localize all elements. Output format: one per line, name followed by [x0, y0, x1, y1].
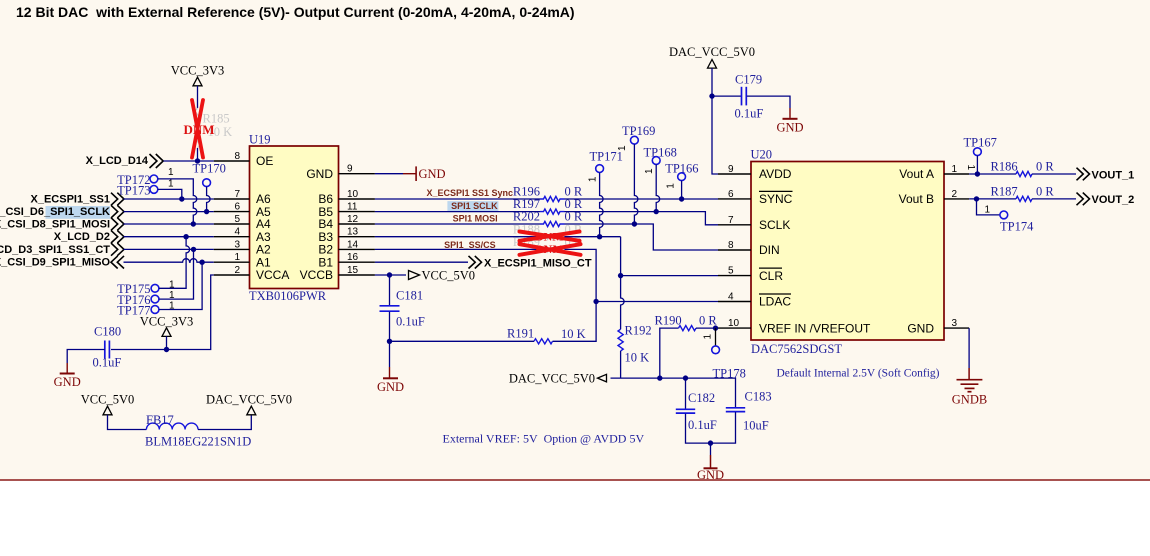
resistor R186 0 R: [1016, 171, 1032, 176]
svg-text:9: 9: [347, 164, 353, 175]
test point TP166 pad: [678, 173, 686, 181]
resistor R196 0 R: [540, 196, 565, 201]
svg-text:SCLK: SCLK: [759, 218, 790, 232]
U20 pin numbers right: [952, 164, 958, 329]
capacitor C180 0.1uF: [105, 341, 110, 359]
wire R191 left to C181/GND junction: [390, 340, 535, 342]
wire LDAC branch down to R191: [553, 302, 597, 342]
svg-text:Vout A: Vout A: [899, 167, 934, 181]
junction TP166: [679, 196, 684, 201]
test point TP174 pad: [1000, 211, 1008, 219]
svg-text:4: 4: [728, 292, 734, 303]
svg-text:0 R: 0 R: [1036, 160, 1054, 174]
junction VCC_3V3 / C180 rail: [164, 347, 169, 352]
op-amp U19 body (level shifter TXB0106PWR): [250, 146, 339, 289]
svg-text:U19: U19: [249, 133, 271, 147]
svg-text:3: 3: [234, 239, 240, 250]
svg-text:X_LCD_D14: X_LCD_D14: [86, 155, 149, 167]
svg-text:TP168: TP168: [644, 145, 677, 159]
wire R186 to VOUT_1 port: [1032, 173, 1076, 175]
wire C182 bottom / C183 bottom to GND: [686, 412, 736, 443]
port chevron SS1_CT: [111, 243, 124, 256]
svg-text:C183: C183: [745, 390, 772, 404]
svg-text:6: 6: [728, 189, 734, 200]
svg-text:5: 5: [234, 214, 240, 225]
wire X_LCD_D14 to U19 pin 8: [164, 160, 214, 162]
test point TP169 pad: [631, 136, 639, 144]
svg-text:1: 1: [985, 205, 991, 216]
wire SPI1_MOSI to U19 pin 5: [124, 223, 214, 225]
svg-text:1: 1: [169, 280, 175, 291]
junction R185 / X_LCD_D14: [195, 158, 200, 163]
svg-text:R191: R191: [507, 327, 534, 341]
wire TP172 to SPI1_MOSI row (hops SS1, SCLK): [158, 179, 197, 224]
svg-text:16: 16: [347, 252, 359, 263]
wire LDAC junction to U20 LDAC pin 4: [596, 301, 718, 303]
svg-text:10 K: 10 K: [625, 351, 650, 365]
wire U19 VCCA pin 2 down to VCC_3V3 rail: [111, 275, 214, 350]
port chevron X_ECSPI1_MISO_CT: [469, 256, 482, 269]
power port GND (U19 pin 9): [403, 166, 446, 181]
svg-text:VREF IN /VREFOUT: VREF IN /VREFOUT: [759, 321, 871, 335]
wire TP177 up to row: [159, 262, 202, 309]
U20 pin stubs left: [718, 174, 751, 328]
U20 pin name overbars (SYNC, CLR, LDAC): [759, 191, 793, 294]
wire C182 top lead: [685, 378, 687, 409]
junction TP167 / Vout A: [975, 171, 980, 176]
wire X_ECSPI1_SS1 to U19 pin 7: [124, 198, 214, 200]
wire U20 GND pin 3 down to GNDB: [968, 328, 970, 368]
resistor R192 10K (pull to DAC_VCC_5V0): [618, 329, 623, 351]
svg-text:6: 6: [234, 202, 240, 213]
svg-text:2: 2: [952, 189, 958, 200]
svg-text:VCC_3V3: VCC_3V3: [171, 64, 224, 78]
svg-text:TP174: TP174: [1000, 220, 1034, 234]
wire TP169 down to row: [634, 144, 638, 224]
wire TP175 up to row: [159, 237, 190, 289]
svg-text:1: 1: [168, 167, 174, 178]
svg-text:11: 11: [347, 202, 358, 213]
svg-text:1: 1: [168, 179, 174, 190]
wire SS1_CT to U19 pin 3: [124, 248, 214, 250]
svg-text:GND: GND: [907, 321, 934, 335]
wire rail up to R190: [660, 328, 679, 378]
test point TP167 pad: [974, 148, 982, 156]
capacitor C182 0.1uF: [676, 409, 695, 413]
U19 pin numbers left: [234, 151, 240, 276]
svg-text:TXB0106PWR: TXB0106PWR: [249, 289, 327, 303]
svg-text:GND: GND: [776, 120, 803, 134]
DNM red X over R185: [192, 100, 203, 158]
resistor R197 0 R: [540, 209, 565, 214]
svg-text:1: 1: [965, 165, 976, 171]
junction TP172 / SPI1_MOSI: [191, 221, 196, 226]
svg-text:VOUT_1: VOUT_1: [1092, 169, 1135, 181]
junction VREF / TP178: [713, 325, 718, 330]
op-amp U20 body (DAC7562SDGST): [751, 162, 944, 341]
port chevron VOUT_2: [1077, 193, 1090, 206]
svg-text:TP167: TP167: [964, 136, 997, 150]
wire TP170 to SCLK row (hops SS1): [207, 187, 211, 212]
svg-text:SYNC: SYNC: [759, 192, 793, 206]
wire R185 to X_LCD_D14 wire: [197, 148, 199, 161]
svg-text:X_ECSPI1_SS1: X_ECSPI1_SS1: [31, 193, 111, 205]
wire Vout B down to TP174: [977, 199, 1000, 215]
test point TP176 pad: [151, 295, 159, 303]
wire VCC_5V0 to FB17: [108, 415, 147, 430]
U19 pin stubs left (pins 8,7,6,5,4,3,1,2): [214, 161, 250, 275]
junction TP175: [183, 234, 188, 239]
svg-text:DAC7562SDGST: DAC7562SDGST: [751, 342, 842, 356]
wire R187 to VOUT_2 port: [1032, 198, 1076, 200]
test point TP170 pad: [203, 179, 211, 187]
capacitor C183 10uF: [726, 408, 745, 412]
svg-text:15: 15: [347, 265, 359, 276]
svg-text:R186: R186: [991, 160, 1018, 174]
svg-text:C182: C182: [688, 391, 715, 405]
wire B2 row (SPI1_SS/CS) down to LDAC: [565, 249, 597, 301]
test point TP173 pad: [150, 186, 158, 194]
svg-text:7: 7: [728, 215, 734, 226]
resistor R190 0 R: [679, 326, 697, 331]
svg-text:C179: C179: [735, 73, 762, 87]
test point TP168 pad: [652, 157, 660, 165]
svg-text:DAC_VCC_5V0: DAC_VCC_5V0: [509, 372, 595, 386]
power symbol VCC_3V3 arrow (lower): [162, 328, 171, 337]
resistor R202 0 R: [540, 221, 565, 226]
junction TP177: [199, 260, 204, 265]
svg-text:12 Bit DAC with External Refe: 12 Bit DAC with External Reference (5V)-…: [16, 4, 575, 20]
svg-text:0.1uF: 0.1uF: [688, 418, 717, 432]
capacitor C179 0.1uF: [742, 87, 747, 106]
svg-text:VOUT_2: VOUT_2: [1092, 194, 1135, 206]
highlight on SPI1_SCLK middle label: [447, 201, 498, 211]
wire junction down to TP178 pad: [715, 328, 717, 346]
resistor R185 10K (DNM, greyed): [195, 108, 200, 148]
svg-text:R192: R192: [625, 324, 652, 338]
wire SCLK row to U20 SCLK pin 7: [565, 212, 719, 225]
port chevron X_ECSPI1_SS1: [111, 193, 124, 206]
svg-text:DAC_VCC_5V0: DAC_VCC_5V0: [669, 45, 755, 59]
svg-text:X_ECSPI1 SS1 Sync: X_ECSPI1 SS1 Sync: [426, 188, 513, 198]
junction TP169: [632, 221, 637, 226]
svg-text:0 R: 0 R: [1036, 185, 1054, 199]
wire C179 right lead to GND: [747, 96, 790, 108]
power symbol VCC_3V3 arrow: [193, 77, 202, 86]
svg-text:C181: C181: [396, 289, 423, 303]
test point TP171 pad: [596, 165, 604, 173]
U19 pin names: [256, 154, 333, 282]
ground GND (C181): [377, 378, 404, 394]
junction C181 / VCCB: [387, 272, 392, 277]
svg-text:14: 14: [347, 239, 359, 250]
wire SPI1_SCLK to U19 pin 6: [124, 211, 214, 213]
svg-text:10: 10: [728, 318, 740, 329]
svg-text:Default Internal 2.5V (Soft Co: Default Internal 2.5V (Soft Config): [777, 368, 940, 380]
svg-text:7: 7: [234, 189, 240, 200]
svg-text:0.1uF: 0.1uF: [735, 107, 764, 121]
wire U19 pin 9 to GND port: [375, 173, 403, 175]
svg-text:1: 1: [588, 176, 599, 182]
svg-text:AVDD: AVDD: [759, 167, 792, 181]
svg-text:GND: GND: [306, 167, 333, 181]
svg-text:12: 12: [347, 214, 359, 225]
wire U19 pin 16 to X_ECSPI1_MISO_CT port: [375, 261, 468, 263]
U20 pin numbers left: [728, 164, 740, 329]
wire MOSI row to U20 DIN pin 8: [565, 224, 719, 250]
wire U19 VCCB pin 15 to VCC_5V0: [375, 274, 406, 276]
svg-text:GND: GND: [419, 167, 446, 181]
wire B3 row to CLR / R192: [565, 236, 621, 238]
junction TP170 / SPI1_SCLK: [204, 209, 209, 214]
wire TP168 down to row: [656, 164, 660, 211]
power symbol DAC_VCC_5V0 arrow (top): [708, 60, 717, 69]
svg-text:TP169: TP169: [622, 124, 655, 138]
junction TP176: [191, 247, 196, 252]
wire U19 to R202: [375, 223, 540, 225]
wire U20 Vout A to R186: [969, 173, 1016, 175]
junction TP168: [654, 209, 659, 214]
svg-text:DIN: DIN: [759, 243, 780, 257]
svg-text:10: 10: [347, 189, 359, 200]
svg-text:External VREF: 5V Option @ AV: External VREF: 5V Option @ AVDD 5V: [443, 432, 645, 446]
port chevron X_LCD_D14: [150, 154, 164, 168]
svg-text:VCCB: VCCB: [300, 268, 333, 282]
wire U20 Vout B to R187: [969, 198, 1016, 200]
svg-text:1: 1: [665, 183, 676, 189]
svg-text:R187: R187: [991, 185, 1018, 199]
svg-text:TP173: TP173: [117, 183, 150, 197]
wire DAC_VCC_5V0 rail: [611, 378, 736, 407]
junction TP171: [597, 234, 602, 239]
ground GND (C180): [54, 374, 81, 390]
power symbol VCC_5V0 arrow (bottom): [103, 406, 112, 415]
ground GNDB (earth symbol): [957, 380, 983, 392]
svg-text:X_ECSPI1_MISO_CT: X_ECSPI1_MISO_CT: [484, 258, 592, 270]
svg-text:X_CSI_D9_SPI1_MISO: X_CSI_D9_SPI1_MISO: [0, 257, 110, 269]
test point TP172 pad: [150, 175, 158, 183]
svg-text:CLR: CLR: [759, 269, 783, 283]
U20 pin stubs right (pins 1,2,3): [944, 174, 969, 328]
svg-text:X_LCD_D3_SPI1_SS1_CT: X_LCD_D3_SPI1_SS1_CT: [0, 244, 110, 256]
svg-text:8: 8: [234, 151, 240, 162]
test point TP178 pad: [712, 346, 720, 354]
U19 pin stubs right (pins 9,10,11,12,13,14,16,15): [339, 174, 375, 275]
svg-text:R190: R190: [655, 314, 682, 328]
svg-text:1: 1: [703, 334, 714, 340]
junction rail / C182: [683, 375, 688, 380]
junction TP173 / X_ECSPI1_SS1: [179, 196, 184, 201]
port chevron VOUT_1: [1077, 168, 1090, 181]
port chevron SPI1_SCLK: [111, 205, 124, 218]
power symbol DAC_VCC_5V0 arrow (bottom): [247, 406, 256, 415]
svg-text:SPI1 SCLK: SPI1 SCLK: [451, 201, 498, 211]
test point TP175 pad: [151, 284, 159, 292]
svg-text:GNDB: GNDB: [952, 393, 987, 407]
svg-text:1: 1: [952, 164, 958, 175]
wire R192 bottom to DAC_VCC_5V0 rail: [620, 351, 622, 378]
svg-text:10 K: 10 K: [561, 327, 586, 341]
wire C181 top: [389, 275, 391, 305]
svg-text:0.1uF: 0.1uF: [93, 356, 122, 370]
junction C179 branch: [709, 93, 714, 98]
svg-text:8: 8: [728, 240, 734, 251]
junction TP174 / Vout B: [974, 196, 979, 201]
ground GND (C182/C183): [697, 468, 724, 482]
resistor R191 10K: [534, 339, 553, 344]
svg-text:0.1uF: 0.1uF: [396, 315, 425, 329]
resistor R189 0 R (DNM, greyed): [540, 247, 565, 252]
svg-text:X_LCD_D2: X_LCD_D2: [54, 231, 110, 243]
port chevron SPI1_MISO (input): [111, 256, 124, 269]
svg-text:2: 2: [234, 265, 240, 276]
svg-text:TP170: TP170: [193, 162, 226, 176]
svg-text:U20: U20: [751, 148, 773, 162]
svg-text:5: 5: [728, 266, 734, 277]
wire U19 to R188: [375, 236, 540, 238]
U19 pin numbers right: [347, 164, 359, 276]
wire C181 bottom to GND: [389, 312, 391, 367]
svg-text:VCC_5V0: VCC_5V0: [422, 269, 475, 283]
svg-text:Vout B: Vout B: [899, 192, 934, 206]
svg-text:GND: GND: [54, 375, 81, 389]
wire SPI1_MISO to U19 pin 1 (hops over TP175/TP176 drops): [124, 259, 214, 263]
power symbol VCC_5V0 arrow (right): [409, 271, 420, 280]
svg-text:SPI1 MOSI: SPI1 MOSI: [453, 214, 498, 224]
ground GND (C179): [776, 119, 803, 135]
svg-text:X_CSI_D8_SPI1_MOSI: X_CSI_D8_SPI1_MOSI: [0, 218, 110, 230]
wire SS1_Sync row to U20 SYNC pin 6: [565, 198, 719, 200]
svg-text:0 R: 0 R: [699, 314, 717, 328]
svg-text:VCCA: VCCA: [256, 268, 289, 282]
junction LDAC / R191 branch: [593, 299, 598, 304]
svg-text:1: 1: [617, 145, 628, 151]
wire U19 to R189: [375, 248, 540, 250]
svg-text:1: 1: [234, 252, 240, 263]
wire TP176 up to row: [159, 249, 194, 299]
port chevron SPI1_MOSI: [111, 218, 124, 231]
U20 pin names: [759, 167, 934, 335]
wire TP171 down to row: [600, 173, 604, 237]
junction C181-GND / R191: [387, 339, 392, 344]
resistor R188 0 R (DNM, greyed): [540, 234, 565, 239]
wire DAC_VCC_5V0 down to U20 AVDD pin 9: [712, 68, 718, 174]
wire FB17 to DAC_VCC_5V0: [198, 415, 251, 430]
junction CLR / R192 branch: [618, 273, 623, 278]
svg-text:DAC_VCC_5V0: DAC_VCC_5V0: [206, 393, 292, 407]
svg-text:3: 3: [952, 318, 958, 329]
svg-text:LDAC: LDAC: [759, 295, 791, 309]
resistor R187 0 R: [1016, 196, 1032, 201]
wire VCC_3V3 arrow stem: [166, 336, 168, 349]
power symbol DAC_VCC_5V0 arrow (left): [598, 374, 607, 382]
wire C180 left to GND: [67, 350, 105, 364]
wire U19 to R197: [375, 211, 540, 213]
svg-text:GND: GND: [377, 380, 404, 394]
svg-text:X_CSI_D6_SPI1_SCLK: X_CSI_D6_SPI1_SCLK: [0, 206, 110, 218]
junction bottom rail / GND: [708, 440, 713, 445]
ferrite bead FB17 BLM18EG221SN1D: [146, 423, 198, 429]
svg-text:FB17: FB17: [146, 413, 174, 427]
wire R190 to U20 VREF pin 10: [696, 327, 718, 329]
wire C179 left lead: [712, 95, 741, 97]
highlight on SPI1_SCLK left label: [46, 206, 111, 219]
junction rail / R190: [657, 375, 662, 380]
DNM red X over R188: [520, 232, 580, 241]
wire GND drop: [710, 443, 712, 455]
test point TP177 pad: [151, 306, 159, 314]
wire TP167 down to Vout A: [976, 156, 978, 174]
wire X_LCD_D2 to U19 pin 4: [124, 236, 214, 238]
svg-text:BLM18EG221SN1D: BLM18EG221SN1D: [145, 435, 251, 449]
svg-text:10uF: 10uF: [743, 419, 769, 433]
wire TP173 to SS1 row: [158, 189, 182, 199]
port chevron X_LCD_D2: [111, 230, 124, 243]
wire TP166 down to row: [681, 181, 683, 199]
svg-text:4: 4: [234, 227, 240, 238]
wire VCC_3V3 to R185: [197, 86, 199, 108]
svg-text:13: 13: [347, 227, 359, 238]
wire U19 to R196: [375, 198, 540, 200]
sheet border line: [0, 479, 1150, 481]
capacitor C181 0.1uF: [380, 306, 400, 311]
svg-text:OE: OE: [256, 154, 273, 168]
svg-text:9: 9: [728, 164, 734, 175]
svg-text:C180: C180: [94, 325, 121, 339]
DNM red X over R189: [520, 244, 581, 255]
svg-text:1: 1: [644, 168, 655, 174]
wire CLR junction to U20 CLR pin 5: [621, 275, 718, 277]
svg-text:VCC_5V0: VCC_5V0: [81, 393, 134, 407]
svg-text:SPI1_SS/CS: SPI1_SS/CS: [444, 240, 496, 250]
